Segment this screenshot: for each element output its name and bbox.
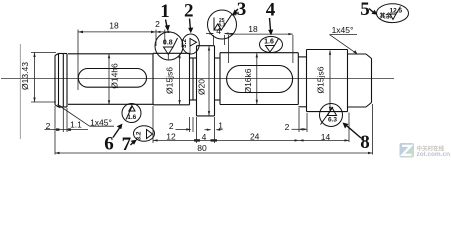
- svg-text:2: 2: [184, 0, 194, 21]
- svg-text:0.8: 0.8: [163, 39, 173, 46]
- svg-text:80: 80: [197, 143, 207, 153]
- roughness symbol callout 4: Ra 1.6 circled: [260, 37, 283, 53]
- svg-text:1.6: 1.6: [264, 39, 274, 46]
- svg-text:Ø14h6: Ø14h6: [110, 63, 120, 89]
- svg-text:1: 1: [160, 1, 170, 22]
- roughness symbol callout 3: compound symbol, circled: [208, 10, 237, 39]
- big middle section (Ø16k6): [220, 53, 298, 105]
- roughness symbol callout 5: 其余 (rest) Ra 12.5 circled: [377, 4, 409, 23]
- svg-text:Ø20: Ø20: [197, 79, 207, 95]
- bottom row B: 12 / 4 / 24 / 14: [153, 106, 349, 143]
- neck (Ø15js6 right): [298, 50, 306, 112]
- svg-text:6.3: 6.3: [328, 117, 337, 124]
- 1x45 chamfer label left: [58, 105, 90, 127]
- shaft left end face: [55, 54, 59, 108]
- keyway 2: [227, 66, 293, 93]
- diameter label Ø14h6 with dim line: [108, 54, 110, 105]
- svg-text:2: 2: [285, 122, 290, 132]
- retaining-ring groove at left end: [59, 54, 68, 108]
- callout number 7 with leader arrow: [122, 134, 137, 155]
- bottom row A middle: 2 and 1: [176, 117, 223, 132]
- watermark: [400, 143, 451, 158]
- keyway 1: [78, 69, 146, 88]
- section 1 (Ø14h6) outline: [68, 53, 153, 105]
- callout number 4 with leader arrow: [266, 0, 276, 35]
- bottom row A right: 2: [292, 108, 308, 132]
- svg-text:Ø16k6: Ø16k6: [243, 68, 253, 93]
- svg-text:3.2: 3.2: [181, 39, 188, 48]
- svg-text:18: 18: [248, 24, 258, 34]
- svg-text:Ø15js6: Ø15js6: [316, 66, 326, 93]
- diameter label Ø20 with dim line: [208, 46, 210, 116]
- svg-text:2: 2: [46, 121, 51, 131]
- svg-text:18: 18: [109, 21, 119, 31]
- top dim 4 over collar: [206, 32, 232, 45]
- Ø13.43 vertical dimension left: [31, 53, 56, 103]
- bottom overall 80: [55, 104, 373, 155]
- roughness symbol callout 1: Ra 0.8 circled: [155, 32, 183, 60]
- svg-text:1.6: 1.6: [127, 114, 136, 121]
- svg-text:1x45°: 1x45°: [90, 117, 112, 127]
- callout number 6 with leader arrow: [104, 124, 122, 155]
- diameter label Ø15js6 (left) with dim line: [178, 54, 180, 105]
- svg-text:zol.com.cn: zol.com.cn: [417, 151, 451, 158]
- callout number 8 with leader arrow: [343, 123, 370, 154]
- roughness symbol callout 8: Ra 6.3 inverted, circled: [320, 104, 343, 127]
- top dim line 18 / 2 (left): [78, 30, 171, 91]
- roughness symbol callout 6: Ra 1.6 inverted, circled: [122, 104, 141, 123]
- svg-text:1x45°: 1x45°: [332, 25, 354, 35]
- callout number 3 with leader arrow: [232, 0, 246, 20]
- svg-text:8: 8: [360, 132, 370, 153]
- collar (Ø20): [197, 46, 215, 116]
- relief groove before collar: [190, 46, 197, 116]
- svg-text:Ø13.43: Ø13.43: [20, 62, 30, 90]
- svg-text:4: 4: [266, 0, 276, 21]
- bottom row A: 2 / 1.1 left: [45, 106, 89, 132]
- svg-text:4: 4: [216, 26, 221, 36]
- svg-text:Ø15js6: Ø15js6: [165, 67, 175, 94]
- svg-text:4: 4: [202, 132, 207, 142]
- relief groove after collar: [215, 53, 221, 105]
- svg-text:14: 14: [321, 132, 331, 142]
- callout number 2 with leader arrow: [184, 0, 194, 33]
- svg-text:6: 6: [104, 133, 114, 154]
- drawing border left edge: [19, 44, 21, 139]
- svg-text:5: 5: [360, 0, 370, 20]
- svg-text:3.2: 3.2: [136, 131, 143, 140]
- centerline: [1, 78, 394, 80]
- svg-text:1.1: 1.1: [70, 120, 82, 130]
- svg-text:3: 3: [237, 0, 247, 20]
- svg-text:24: 24: [250, 131, 260, 141]
- right end section with chamfer: [307, 50, 372, 112]
- roughness symbol callout 7: Ra 3.2 rotated, circled: [134, 126, 155, 142]
- diameter label Ø16k6 with dim line: [256, 53, 258, 104]
- svg-text:12: 12: [166, 132, 176, 142]
- top dim 18 (right): [229, 33, 293, 63]
- svg-text:2: 2: [169, 121, 174, 131]
- roughness symbol callout 2: Ra 3.2 rotated, circled: [181, 34, 199, 54]
- callout number 1 with leader arrow: [160, 1, 170, 32]
- svg-text:1: 1: [218, 120, 223, 130]
- callout number 5 with leader arrow: [360, 0, 377, 20]
- section 2 (Ø15js6 left): [153, 53, 190, 105]
- diameter label Ø15js6 (right) with dim line: [329, 50, 331, 111]
